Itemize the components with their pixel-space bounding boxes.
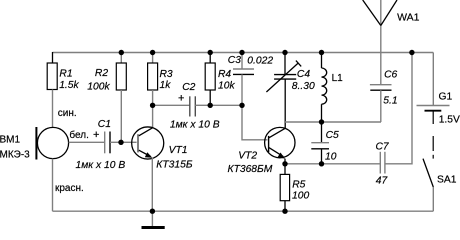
wire collector rail3 to L1/C6 [285, 121, 381, 123]
label BM1 type МКЭ-3 [0, 149, 30, 160]
variable capacitor C4 [266, 61, 301, 92]
svg-text:R5: R5 [292, 180, 305, 191]
wire top rail corner down to battery + [432, 53, 434, 106]
svg-text:1k: 1k [160, 80, 172, 91]
label G1 [439, 92, 453, 103]
svg-text:VT1: VT1 [169, 145, 188, 156]
label C1 [98, 119, 111, 130]
svg-text:C4: C4 [297, 69, 310, 80]
svg-text:8..30: 8..30 [292, 81, 315, 92]
label VT1 type КТ315Б [156, 160, 193, 171]
svg-text:C5: C5 [326, 130, 339, 141]
label VT2 type КТ368БМ [228, 164, 273, 175]
svg-text:R4: R4 [218, 69, 231, 80]
wire C3 node down and right to VT2 base [242, 105, 267, 140]
svg-text:R3: R3 [160, 69, 173, 80]
resistor R4 [205, 63, 215, 90]
resistor R5 [280, 174, 289, 200]
label C1 value 1мк x 10 В [76, 160, 126, 171]
wire VT1 emitter to ground rail [151, 158, 153, 211]
label C6 value 5.1 [383, 95, 397, 106]
label VT2 [238, 150, 257, 161]
svg-text:1.5V: 1.5V [439, 114, 460, 125]
wire R4 top stub [209, 53, 211, 64]
label C2 value 1мк x 10 В [170, 119, 220, 130]
wire L1 bottom stub [321, 104, 323, 122]
ground symbol [142, 211, 165, 229]
resistor R3 [148, 63, 158, 90]
svg-text:КТ368БМ: КТ368БМ [228, 164, 273, 175]
wire VT1 collector up to rail2 [152, 105, 154, 127]
wire C6 bottom down to rail3 [380, 90, 382, 122]
capacitor C5 [311, 143, 329, 149]
svg-text:VT2: VT2 [238, 150, 257, 161]
svg-text:L1: L1 [332, 73, 344, 84]
junction ground rail at R5 [282, 209, 287, 214]
wire R4 bottom stub [209, 90, 211, 105]
svg-text:C1: C1 [98, 119, 111, 130]
svg-text:10k: 10k [218, 81, 235, 92]
label R4 value 10k [218, 81, 235, 92]
label R4 [218, 69, 231, 80]
battery G1 [417, 106, 450, 111]
wire battery - down (dashed link to SA1) [432, 111, 434, 159]
label R2 [95, 68, 108, 79]
capacitor C1 [105, 132, 110, 154]
label C3 [228, 55, 241, 66]
svg-text:C2: C2 [182, 82, 195, 93]
label C1 polarity + [93, 129, 99, 141]
wire rail2 C2 to R4 [195, 104, 210, 106]
svg-text:1мк x 10 В: 1мк x 10 В [76, 160, 126, 171]
junction top rail at C4 [282, 50, 287, 55]
wire SA1 bottom to ground rail [432, 187, 434, 211]
label G1 value 1.5V [439, 114, 460, 125]
wire rail2 R3 to C2 [153, 104, 190, 106]
svg-text:C3: C3 [228, 55, 241, 66]
label R1 [59, 69, 72, 80]
label R5 [292, 180, 305, 191]
svg-text:5.1: 5.1 [383, 95, 397, 106]
label wire color красн. [55, 183, 84, 194]
label C5 value 10 [325, 151, 337, 162]
label VT1 [169, 145, 188, 156]
wire R3 top stub [152, 53, 154, 64]
wire C1 to base node [110, 141, 121, 143]
junction emitter rail at C5 [319, 161, 324, 166]
label C2 polarity + [178, 92, 184, 104]
junction top rail at C3 [239, 50, 244, 55]
wire top supply rail [53, 52, 434, 54]
transistor VT1 [132, 127, 164, 159]
junction rail3 at L1/C5 [319, 119, 324, 124]
transistor VT2 [265, 127, 295, 158]
capacitor C7 [380, 152, 385, 174]
label wire color бел. [69, 129, 88, 141]
svg-text:R1: R1 [59, 69, 72, 80]
label C4 value 8..30 [292, 81, 315, 92]
svg-text:C7: C7 [376, 142, 390, 153]
resistor R2 [116, 63, 126, 90]
svg-text:C6: C6 [384, 70, 397, 81]
wire rail2 R4 to C3 [210, 104, 242, 106]
wire C3 top stub [241, 53, 243, 70]
label R1 value 1.5k [59, 80, 79, 91]
label C4 [297, 69, 310, 80]
svg-text:+: + [93, 129, 99, 141]
label C6 [384, 70, 397, 81]
svg-text:100: 100 [292, 190, 309, 201]
junction rail2 at C3 [239, 103, 244, 108]
label R5 value 100 [292, 190, 309, 201]
svg-text:КТ315Б: КТ315Б [156, 160, 193, 171]
switch SA1 [423, 159, 433, 187]
wire L1 top stub [321, 53, 323, 69]
label C7 value 47 [376, 176, 389, 187]
svg-text:R2: R2 [95, 68, 108, 79]
svg-text:1.5k: 1.5k [59, 80, 79, 91]
inductor L1 [322, 68, 327, 104]
svg-text:SA1: SA1 [437, 175, 457, 186]
capacitor C2 [190, 96, 196, 116]
label WA1 [397, 11, 420, 23]
label SA1 [437, 175, 457, 186]
label R3 [160, 69, 173, 80]
wire R5 bottom stub [284, 201, 286, 212]
label C7 [376, 142, 390, 153]
capacitor C6 [370, 85, 392, 91]
svg-text:47: 47 [376, 176, 389, 187]
resistor R1 [47, 63, 57, 90]
label C2 [182, 82, 195, 93]
junction emitter rail at VT2/R5 [282, 161, 287, 166]
junction top rail at R2 [119, 50, 124, 55]
capacitor C3 [233, 69, 254, 74]
svg-text:0.022: 0.022 [247, 55, 273, 66]
wire bottom ground rail [53, 210, 434, 212]
junction top rail at R4 [208, 50, 213, 55]
wire R2 top stub [120, 53, 122, 64]
junction top rail at R3 [150, 50, 155, 55]
junction rail2 at R4 [208, 103, 213, 108]
wire emitter rail to C7 [285, 163, 380, 165]
svg-text:ВМ1: ВМ1 [0, 134, 21, 145]
label L1 [332, 73, 344, 84]
label R3 value 1k [160, 80, 172, 91]
svg-text:100k: 100k [87, 81, 110, 92]
svg-text:син.: син. [58, 108, 77, 119]
wire microphone bottom to ground rail (красн.) [52, 159, 54, 212]
svg-text:1мк x 10 В: 1мк x 10 В [170, 119, 220, 130]
junction rail2 at R3/VT1 collector [150, 103, 155, 108]
label C3 value 0.022 [247, 55, 273, 66]
wire R1 top stub [52, 52, 54, 63]
svg-text:10: 10 [325, 151, 337, 162]
svg-text:+: + [178, 92, 184, 104]
junction ground rail at VT1 emitter / ground [150, 209, 155, 214]
wire C5 top stub [321, 122, 323, 143]
label wire color син. [58, 108, 77, 119]
wire R2 bottom to VT1 base node [120, 90, 122, 142]
svg-text:красн.: красн. [55, 183, 84, 194]
wire base node to VT1 base [121, 141, 136, 143]
svg-text:WA1: WA1 [397, 11, 420, 23]
wire VT2 emitter stub [284, 159, 286, 164]
wire microphone output to C1 (бел.) [69, 141, 104, 143]
wire emitter rail C7 right to battery branch [385, 53, 412, 164]
antenna WA1 [363, 0, 397, 85]
wire R5 top stub [284, 164, 286, 175]
label C5 [326, 130, 339, 141]
wire R3 bottom stub [152, 90, 154, 105]
wire C4 bottom / VT2 collector [284, 79, 286, 128]
label R2 value 100k [87, 81, 110, 92]
svg-text:МКЭ-3: МКЭ-3 [0, 149, 30, 160]
svg-text:G1: G1 [439, 92, 453, 103]
microphone BM1 [36, 127, 68, 160]
svg-text:бел.: бел. [69, 129, 88, 141]
wire R1 bottom to microphone (син.) [52, 90, 54, 128]
wire C3 bottom stub [241, 74, 243, 105]
wire C5 bottom stub [321, 149, 323, 164]
label BM1 (ВМ1) [0, 134, 21, 145]
junction node VT1 base / C1 / R2 [118, 140, 123, 145]
wire C4 top stub [284, 53, 286, 75]
junction top rail at antenna/battery branch [409, 50, 414, 55]
junction top rail at L1 [319, 50, 324, 55]
